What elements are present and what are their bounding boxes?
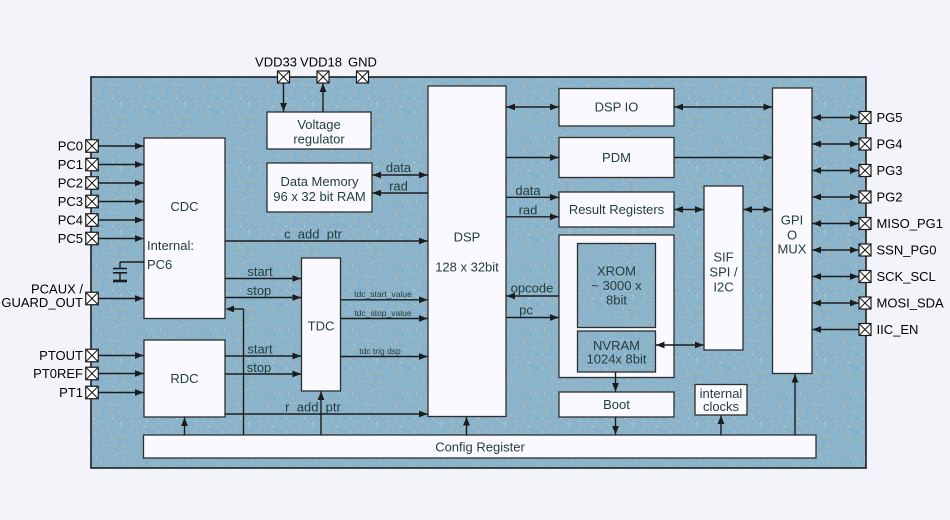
svg-text:opcode: opcode [511,281,554,296]
net label tdc_trig_dsp [359,346,401,356]
wire tdc_trig_dsp TDC to DSP [341,353,428,360]
pin MISO_PG1 [859,218,871,230]
wire DSP to DSP IO [507,104,559,111]
net label data (result) [515,183,541,198]
pin PC4 [86,214,99,227]
block DSP 128 x 32bit [428,86,506,417]
wire tdc_stop_value TDC to DSP [341,315,428,322]
wire Config Register to TDC [318,392,325,436]
pin PCAUX / GUARD_OUT [86,292,99,305]
svg-text:PC3: PC3 [58,194,83,209]
block DSP IO [559,89,674,127]
svg-text:regulator: regulator [293,132,345,147]
net label r_add_ptr [285,400,341,415]
wire Voltage regulator to VDD18 [320,84,327,113]
svg-text:PT1: PT1 [59,385,83,400]
wire CDC stop to TDC [225,294,301,301]
svg-text:PDM: PDM [602,150,631,165]
wire VDD33 to Voltage regulator [280,84,287,112]
svg-text:O: O [787,228,797,243]
wire RDC start to TDC [225,353,301,360]
block RDC [144,340,225,417]
svg-text:data: data [515,183,541,198]
net label tdc_start_value [354,289,412,299]
svg-text:stop: stop [247,283,272,298]
svg-text:PG2: PG2 [877,190,903,205]
wire GPIO MUX to PG5 [813,114,859,121]
pin GND [357,71,369,83]
block SIF SPI / I2C [704,186,743,350]
wire Boot to Config Register [612,417,619,435]
block Voltage regulator [267,112,371,149]
pin label PC5 [58,231,83,246]
net label data (memory) [386,160,412,175]
svg-text:stop: stop [247,360,272,375]
pin PC3 [86,195,99,208]
svg-text:rad: rad [389,179,408,194]
pin PT0REF [86,367,99,380]
svg-text:r_add_ptr: r_add_ptr [285,400,341,415]
pin MOSI_SDA [859,297,871,309]
wire GPIO MUX to MOSI_SDA [813,300,859,307]
svg-text:data: data [386,160,412,175]
wire Config Register to internal clocks [718,416,725,436]
pin label PC4 [58,213,83,228]
wire rad DSP to Data Memory [373,190,429,197]
wire PC4 to CDC [99,217,144,224]
pin PG2 [859,191,871,203]
wire GPIO MUX to SCK_SCL [813,273,859,280]
svg-text:SCK_SCL: SCK_SCL [877,269,936,284]
wire GPIO MUX to PG4 [813,141,859,148]
svg-text:PTOUT: PTOUT [39,348,83,363]
svg-text:MISO_PG1: MISO_PG1 [877,216,943,231]
svg-text:~ 3000 x: ~ 3000 x [591,278,642,293]
svg-text:Voltage: Voltage [297,117,340,132]
block Boot [559,392,674,417]
wire CDC to internal capacitor [120,262,144,269]
svg-text:MOSI_SDA: MOSI_SDA [877,296,945,311]
block Data Memory 96 x 32 bit RAM [267,163,372,212]
wire GPIO MUX to IIC_EN [813,326,859,333]
svg-text:1024x 8bit: 1024x 8bit [587,352,647,367]
wire Config Register to DSP [463,417,470,435]
svg-text:pc: pc [519,303,533,318]
pin IIC_EN [859,324,871,336]
block CDC [144,138,225,319]
pin PC1 [86,158,99,171]
pin label SCK_SCL [877,269,936,284]
svg-text:IIC_EN: IIC_EN [877,322,919,337]
pin label IIC_EN [877,322,919,337]
pin label SSN_PG0 [877,243,937,258]
pin label PC0 [58,139,83,154]
pin PC5 [86,232,99,245]
svg-text:GUARD_OUT: GUARD_OUT [1,295,83,310]
svg-text:PC1: PC1 [58,157,83,172]
wire DSP to PDM [507,154,559,161]
svg-text:Config Register: Config Register [435,440,525,455]
wire pc DSP to XROM [507,314,559,321]
pin label MISO_PG1 [877,216,943,231]
pin label VDD33 [255,55,297,70]
block internal clocks [695,385,747,416]
pin SSN_PG0 [859,244,871,256]
wire PC0 to CDC [99,143,144,150]
pin PT1 [86,386,99,399]
svg-text:128 x 32bit: 128 x 32bit [435,260,499,275]
net label c_add_ptr [284,227,342,242]
pin label MOSI_SDA [877,296,945,311]
svg-text:Data Memory: Data Memory [280,174,359,189]
wire Result Registers to SIF [675,206,704,213]
svg-text:PC4: PC4 [58,213,83,228]
svg-text:PC0: PC0 [58,139,83,154]
pin PC2 [86,177,99,190]
wire DSP IO to GPIO MUX [675,104,773,111]
pin label PT0REF [33,366,83,381]
wire Config Register to GPIO MUX [792,374,799,435]
net label tdc_stop_value [354,308,411,318]
wire data DSP to Result Registers [507,194,559,201]
pin label PG3 [877,163,903,178]
svg-text:DSP IO: DSP IO [595,100,639,115]
svg-text:PG5: PG5 [877,110,903,125]
wire Config Register to RDC [181,418,188,436]
svg-text:VDD33: VDD33 [255,55,297,70]
pin PG5 [859,112,871,124]
svg-text:tdc trig dsp: tdc trig dsp [359,346,401,356]
pin label PG5 [877,110,903,125]
pin SCK_SCL [859,271,871,283]
svg-text:RDC: RDC [170,371,198,386]
wire PCAUX to CDC [99,295,144,302]
svg-text:DSP: DSP [454,230,481,245]
svg-text:MUX: MUX [778,242,807,257]
wire PDM to GPIO MUX [675,154,773,161]
net label opcode [511,281,554,296]
block XROM ~3000 x 8bit [578,244,656,328]
svg-text:tdc_start_value: tdc_start_value [354,289,412,299]
wire PC2 to CDC [99,180,144,187]
wire RDC stop to TDC [225,371,301,378]
svg-text:SSN_PG0: SSN_PG0 [877,243,937,258]
svg-text:VDD18: VDD18 [300,55,342,70]
svg-text:TDC: TDC [308,319,335,334]
pin label PC2 [58,176,83,191]
wire opcode XROM to DSP [507,293,559,300]
pin label PT1 [59,385,83,400]
wire rad DSP to Result Registers [507,213,559,220]
svg-text:tdc_stop_value: tdc_stop_value [354,308,411,318]
svg-text:I2C: I2C [713,280,733,295]
net label pc [519,303,533,318]
wire PC5 to CDC [99,235,144,242]
wire NVRAM to Boot [612,373,619,392]
pin VDD18 [317,71,329,83]
svg-text:XROM: XROM [597,264,636,279]
pin label VDD18 [300,55,342,70]
wire r_add_ptr RDC to DSP [225,411,428,418]
wire data Data Memory to DSP [373,172,428,179]
pin label GND [348,55,377,70]
net label rad (result) [519,203,538,218]
wire GPIO MUX to MISO_PG1 [813,220,859,227]
pin PG3 [859,165,871,177]
wire tdc_start_value TDC to DSP [341,296,428,303]
pin VDD33 [278,71,290,83]
svg-text:GPI: GPI [781,213,803,228]
wire GPIO MUX to SSN_PG0 [813,247,859,254]
svg-text:Internal:: Internal: [147,238,194,253]
block PDM [559,138,674,178]
wire PTOUT to RDC [99,352,144,359]
net label rad (memory) [389,179,408,194]
wire Config Register to CDC [226,306,244,435]
svg-text:rad: rad [519,203,538,218]
block TDC [302,258,341,391]
capacitor internal PC6 [113,269,127,282]
svg-text:PT0REF: PT0REF [33,366,83,381]
svg-text:PC6: PC6 [147,257,172,272]
svg-text:start: start [247,342,273,357]
net label stop (RDC) [247,360,272,375]
pin label PG4 [877,137,903,152]
wire PT0REF to RDC [99,370,144,377]
svg-text:CDC: CDC [170,199,198,214]
pin label PTOUT [39,348,83,363]
pin label PC3 [58,194,83,209]
wire GPIO MUX to PG2 [813,194,859,201]
svg-text:GND: GND [348,55,377,70]
svg-text:96 x 32 bit RAM: 96 x 32 bit RAM [273,189,366,204]
svg-text:Result Registers: Result Registers [569,202,665,217]
svg-text:PG4: PG4 [877,137,903,152]
svg-text:SIF: SIF [713,250,733,265]
pin PTOUT [86,349,99,362]
svg-text:Boot: Boot [603,397,630,412]
wire PT1 to RDC [99,389,144,396]
svg-text:PG3: PG3 [877,163,903,178]
chip body (IC outline) [91,77,866,468]
block NVRAM 1024x 8bit [578,331,656,372]
wire GPIO MUX to PG3 [813,167,859,174]
svg-text:PC2: PC2 [58,176,83,191]
wire c_add_ptr CDC to DSP [225,238,428,245]
block GPIO MUX [773,88,813,374]
wire SIF to GPIO MUX [744,206,773,213]
wire CDC start to TDC [225,275,301,282]
svg-text:SPI /: SPI / [709,265,738,280]
block Result Registers [559,192,674,227]
net label start (CDC) [247,264,273,279]
pin PG4 [859,138,871,150]
svg-text:PC5: PC5 [58,231,83,246]
pin PC0 [86,140,99,153]
wire NVRAM to SIF [656,342,704,349]
svg-text:start: start [247,264,273,279]
pin label PCAUX / GUARD_OUT [1,282,83,311]
wire PC1 to CDC [99,161,144,168]
svg-text:8bit: 8bit [606,293,627,308]
block Config Register [144,435,817,458]
block memory container (XROM/NVRAM) [559,235,674,378]
pin label PC1 [58,157,83,172]
svg-text:c_add_ptr: c_add_ptr [284,227,342,242]
svg-text:clocks: clocks [703,399,740,414]
pin label PG2 [877,190,903,205]
wire PC3 to CDC [99,198,144,205]
net label stop (CDC) [247,283,272,298]
net label start (RDC) [247,342,273,357]
